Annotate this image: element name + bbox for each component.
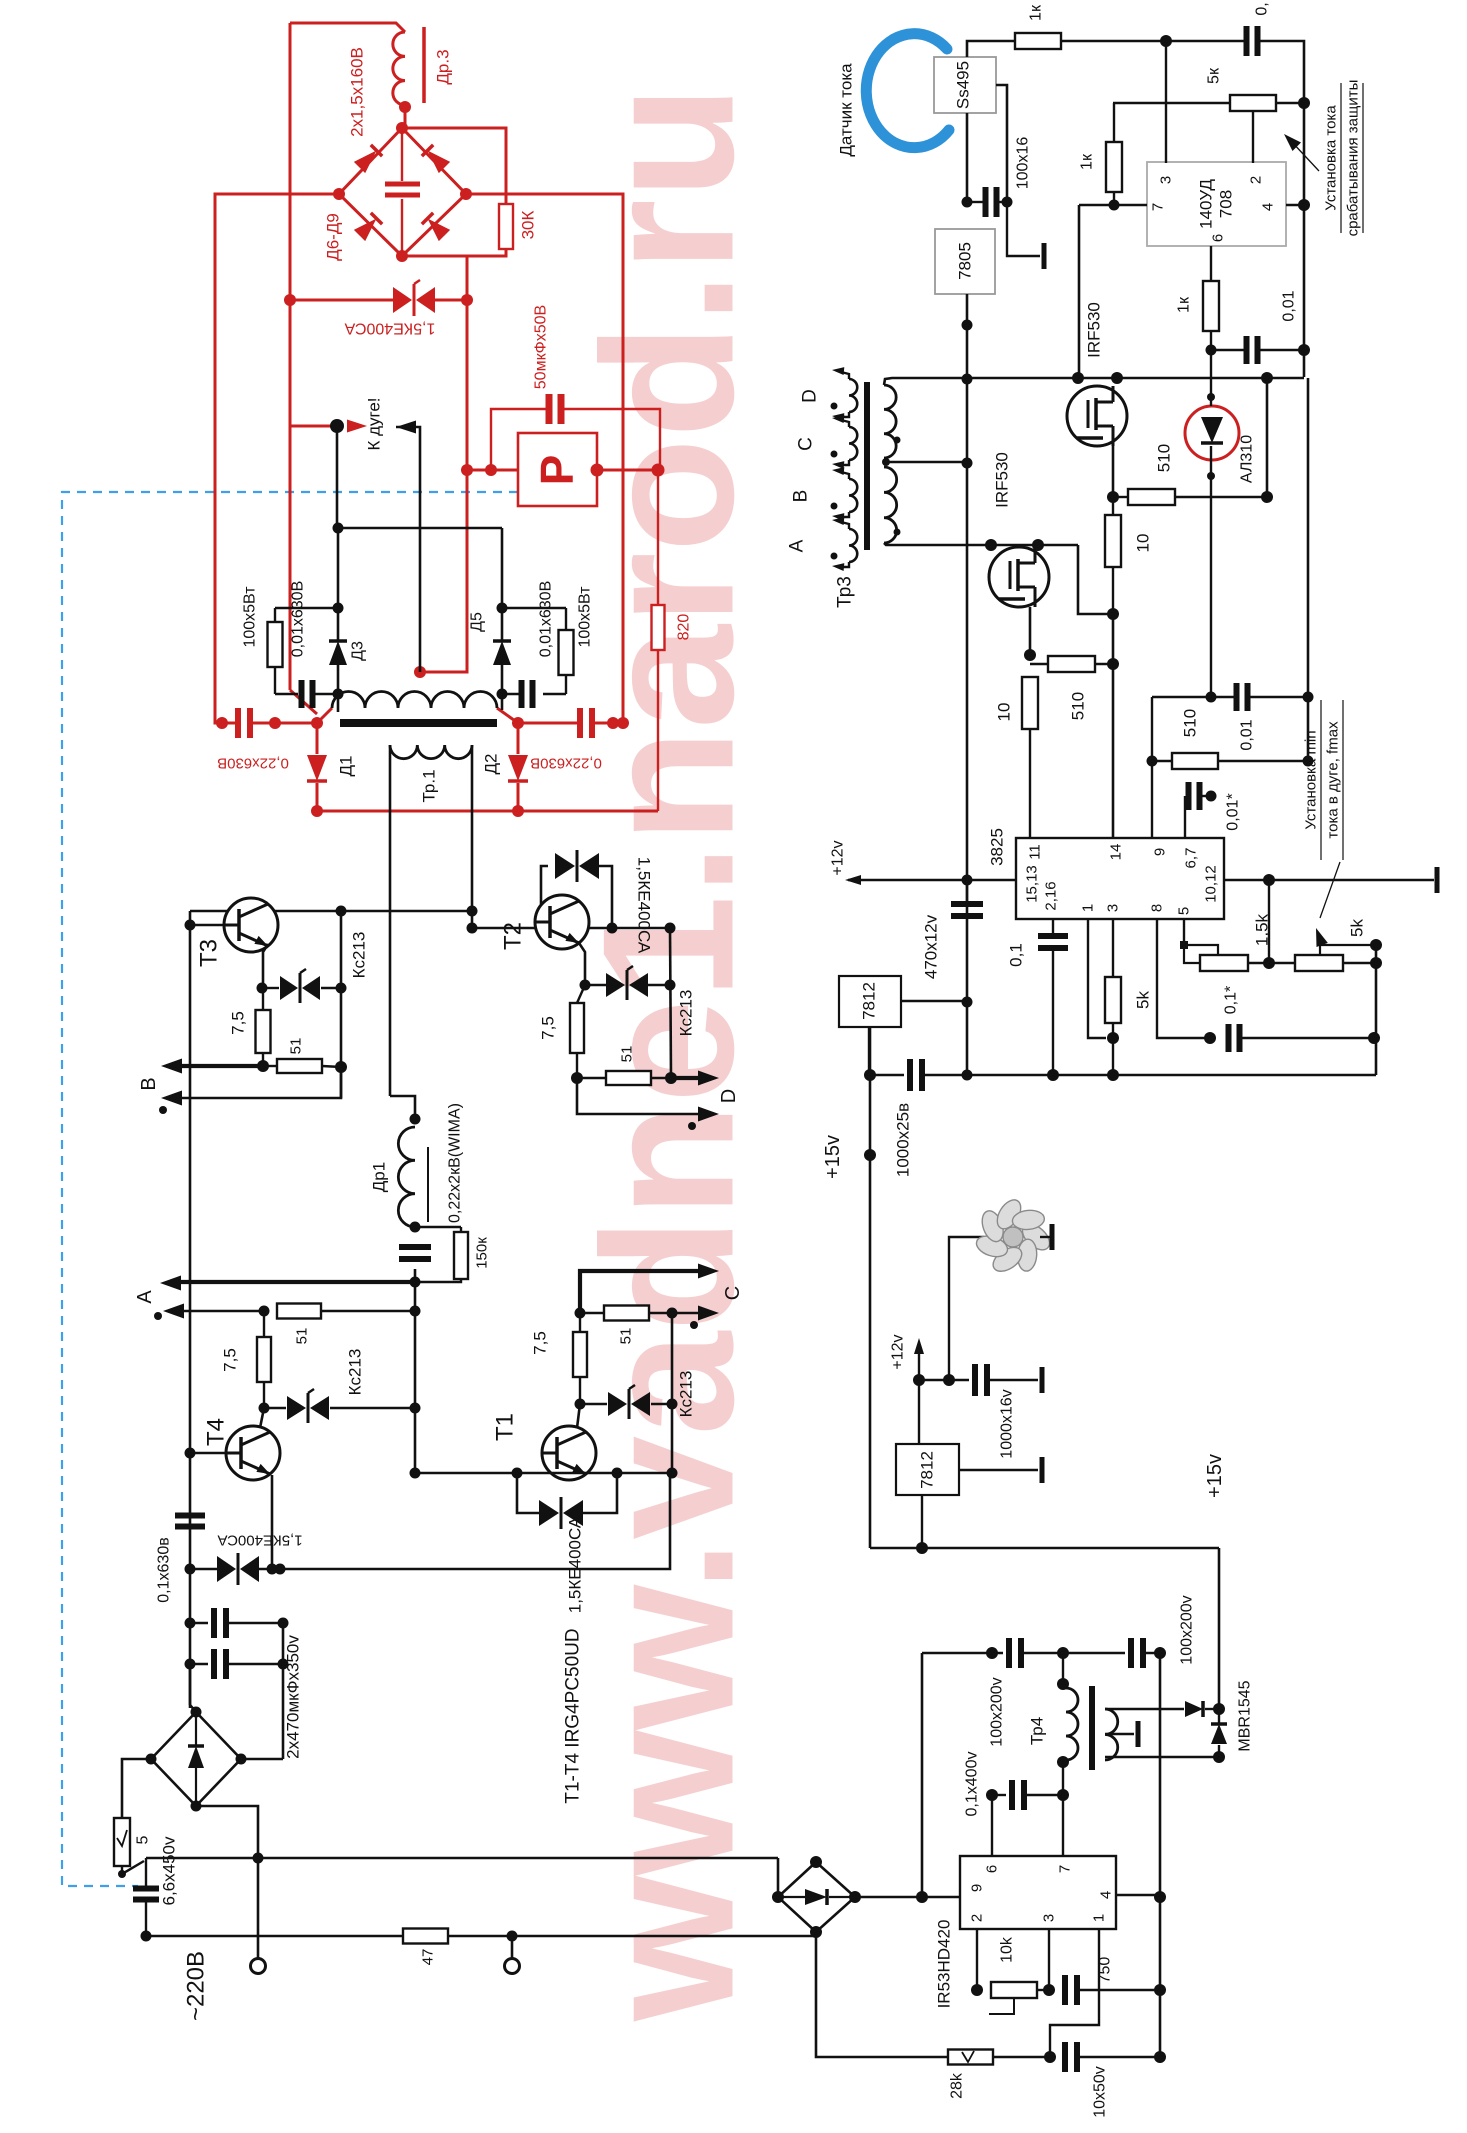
wire aux bridge top [815,1858,817,1862]
cap 10x50v [1062,2042,1068,2072]
svg-text:Т2: Т2 [500,922,527,950]
transformer Tr.1 primary [332,692,497,709]
svg-text:7,5: 7,5 [531,1331,550,1355]
rail x=658 with 820 [657,470,659,811]
svg-text:10: 10 [1134,534,1153,553]
wire IRF530 upper source [1112,446,1115,497]
svg-text:100х5Вт: 100х5Вт [242,586,259,648]
wire aux bottom down [816,1936,948,2057]
thick arrow D [671,1076,700,1080]
bridge diode top-left [354,145,382,173]
Tp3 winding B [849,479,857,512]
svg-text:510: 510 [1181,709,1200,737]
svg-text:15,13: 15,13 [1024,865,1041,903]
wire pin7 row [1079,204,1147,206]
svg-text:0,01х630В: 0,01х630В [538,581,555,658]
svg-text:0,01: 0,01 [1239,719,1256,750]
cap 0,1 pin216 [1052,919,1054,934]
svg-text:1к: 1к [1028,4,1045,21]
zener Kc213 T1 [580,1403,607,1405]
cap 1000x25v [870,1074,904,1076]
cap 0,1x630V [175,1513,205,1519]
rail x=190 [189,911,192,1708]
rail x=290 [289,23,292,690]
Tr.1 primary diag left [317,708,332,723]
transformer Tp4 secondary [1105,1709,1118,1760]
Tp3 winding C [849,427,857,460]
resistor 510 pin9 [1152,760,1172,762]
wire Ss495 right leg [996,85,1007,202]
svg-text:2: 2 [1248,176,1265,184]
svg-text:9: 9 [1152,848,1169,856]
svg-text:T1-T4 IRG4PC50UD: T1-T4 IRG4PC50UD [563,1628,584,1803]
svg-text:+12v: +12v [830,840,847,875]
current sensor blue arc [866,34,949,148]
svg-text:100х200v: 100х200v [1179,1595,1196,1664]
svg-text:IRF530: IRF530 [993,452,1012,508]
svg-text:100х200v: 100х200v [989,1677,1006,1746]
bus T3 y=911 [190,910,472,913]
wire x=415 down [414,1269,417,1473]
svg-text:IR53HD420: IR53HD420 [935,1920,954,2009]
wire x=1267 [1266,378,1269,497]
cap 6,6x450v [145,1858,147,1889]
snubber right cap 0,01x630V [519,680,525,708]
svg-text:7: 7 [1057,1865,1074,1873]
svg-text:6: 6 [984,1865,1001,1873]
svg-text:0,01*: 0,01* [1225,793,1242,830]
svg-text:51: 51 [294,1328,311,1345]
svg-text:510: 510 [1155,444,1174,472]
transformer Tp4 primary [1066,1688,1078,1760]
svg-text:Др1: Др1 [370,1162,389,1192]
svg-text:150к: 150к [474,1237,491,1269]
svg-text:4: 4 [1260,203,1277,211]
svg-text:14: 14 [1108,844,1125,861]
wire K duge return arrow [396,421,416,434]
svg-text:51: 51 [619,1046,636,1063]
svg-text:10,12: 10,12 [1203,865,1220,903]
Tp3 phase dots [894,437,901,444]
svg-text:Установка тока: Установка тока [1323,105,1340,211]
pot 1,5k [1184,945,1218,956]
wire pin3 ir [1048,1929,1050,1990]
bridge vertex dots [396,122,408,134]
bridge diode bottom-left [354,213,382,241]
switch [121,1866,123,1872]
svg-text:IRF530: IRF530 [1085,302,1104,358]
svg-text:10k: 10k [999,1936,1016,1963]
wire bridge bottom to mains [196,1806,258,1966]
svg-text:MBR1545: MBR1545 [1237,1680,1254,1751]
wire secondary left leg [389,745,392,1096]
svg-text:11: 11 [1027,844,1044,860]
svg-text:1000х25в: 1000х25в [894,1103,913,1177]
svg-text:+12v: +12v [890,1334,907,1369]
svg-text:Кс213: Кс213 [350,932,369,979]
box P [518,433,597,506]
rail y=377 [884,378,1304,385]
wire x=341 T3 [340,911,343,988]
wire secondary bottom [1105,1756,1219,1758]
pot 5k arc [1295,955,1343,971]
resistor 51 T1 [580,1312,604,1314]
svg-text:Д6-Д9: Д6-Д9 [324,213,343,261]
svg-text:B: B [138,1077,160,1090]
rail x=283 [282,1623,285,1759]
svg-text:1000х16v: 1000х16v [999,1389,1016,1458]
box Ss495 [934,57,996,113]
svg-text:7,5: 7,5 [229,1011,248,1035]
svg-text:5: 5 [1176,907,1193,915]
ground 1000x16v [1040,1367,1045,1393]
svg-text:Датчик тока: Датчик тока [837,63,856,157]
thin arrow A + 51 T4 [182,1310,264,1313]
cap 470uF A [190,1622,208,1624]
TVS under T1 [517,1473,539,1513]
svg-text:10: 10 [995,703,1014,722]
resistor 510 src upper [1113,496,1128,498]
resistor 51 T2 [577,1077,606,1079]
resistor 10k [991,1982,1037,1998]
box 7812 B [896,1444,959,1495]
gnd rail y=1075 [967,1074,1376,1077]
svg-text:7812: 7812 [918,1451,937,1489]
resistor 7,5 T2 [577,985,585,1003]
svg-text:140УД: 140УД [1197,179,1216,229]
resistor 820 [652,605,665,650]
svg-text:0,1х400v: 0,1х400v [964,1752,981,1817]
Tr.1 primary diag right [497,708,518,723]
rail x=967 [966,294,969,1075]
svg-text:C: C [796,437,817,451]
svg-text:www.vadne1.narod.ru: www.vadne1.narod.ru [564,85,773,2022]
svg-text:срабатывания защиты: срабатывания защиты [1345,80,1362,237]
wire T3 emitter [263,944,268,988]
svg-text:0,01: 0,01 [1281,290,1298,321]
snubber left cap 0,01x630V [299,680,305,708]
wire pin7 ir [1062,1762,1064,1856]
wire right-vertex rail x=623 [466,194,623,723]
svg-text:К дуге!: К дуге! [365,397,384,450]
wire x=1376 [1375,945,1378,1075]
svg-text:1,5КЕ400СА: 1,5КЕ400СА [217,1532,302,1549]
wire pin5 [1183,919,1185,945]
thick arrow A [179,1280,415,1284]
resistor 51 T3 [263,1065,277,1067]
svg-text:6,7: 6,7 [1183,848,1200,869]
node T1 gate + thick arrow C [580,1271,700,1313]
Tp3 primary lower [884,467,897,543]
mains lower wire [146,1935,403,1938]
svg-text:6: 6 [1210,234,1227,242]
svg-text:0,1: 0,1 [1007,943,1026,967]
resistor 7,5 T3 [262,988,264,1010]
svg-text:Ss495: Ss495 [954,61,973,109]
bridge D6-D9 diamond [339,128,466,256]
cap 750 [1062,1975,1068,2005]
wire bridge top to 30K [402,128,506,204]
adjust arrow min [1320,862,1340,918]
wire 7812B gnd [959,1469,1038,1471]
wire 7812A out [901,1000,967,1002]
wire 7812A gnd [868,1027,870,1075]
aux bridge diamond [778,1862,855,1932]
red candle cap right [512,717,524,729]
wire x=672 T1 [671,1313,674,1473]
wire T1 gate lead [577,1404,580,1428]
wire 30K bottom [402,249,506,256]
bridge input diode [195,1714,197,1745]
snubber right resistor 100x5W [502,607,566,609]
wire Tp3 to lower gate jog [1078,545,1113,614]
mains lower wire cont [448,1935,816,1938]
bridge input diamond [151,1712,241,1806]
mosfet IRF530 upper [1067,386,1127,446]
box IR53HD420 [960,1856,1116,1929]
wire P left [467,469,518,472]
svg-text:0,1*: 0,1* [1223,986,1240,1014]
svg-text:50мкФх50В: 50мкФх50В [533,305,550,389]
transistor T4 [226,1426,280,1480]
transformer Tr.1 secondary [390,745,472,759]
wire T4 emitter [271,1475,274,1569]
svg-text:Кс213: Кс213 [677,1371,696,1418]
Tp3 winding D [849,379,857,412]
svg-text:0,22х630В: 0,22х630В [530,755,602,772]
transformer Tp4 core [1089,1686,1095,1770]
transistor T2 [535,895,589,949]
svg-text:8: 8 [1149,904,1166,912]
cap 0,1* [1226,1024,1232,1052]
+15v feed row [870,1547,1219,1550]
svg-text:4: 4 [1098,1891,1115,1899]
svg-text:Д5: Д5 [469,612,486,632]
wire P right [597,469,658,472]
Tp3 bottom rail [884,543,1078,545]
node coil-bridge [399,101,411,113]
bus T1 y=1473 [415,1472,672,1475]
adjust arrow protection [1291,141,1319,171]
diode D5 [501,528,504,642]
wire bridge top [189,1664,192,1705]
wire to ground 100x16 [1007,202,1040,256]
svg-text:+15v: +15v [1204,1454,1226,1498]
cap 1000x16v [919,1379,949,1381]
svg-text:10x50v: 10x50v [1092,2066,1109,2118]
svg-text:1к: 1к [1079,153,1096,170]
cap 0,1x400v [992,1794,1006,1796]
resistor 1k top [1015,33,1061,49]
wire x=922 [921,1653,924,1897]
svg-text:3: 3 [1041,1914,1058,1922]
svg-text:7,5: 7,5 [539,1016,558,1040]
node T2 gate [571,1072,583,1084]
resistor 10 lower [1022,677,1038,729]
cap 100x200v A [1006,1638,1012,1668]
inductor Dr.3 coil [393,32,405,105]
bridge diode top-right [422,145,450,173]
TVS 1,5KE400CA red [290,299,394,302]
inductor Dr1 core [427,1147,429,1222]
terminal 1 [251,1959,266,1974]
wire pin4 ir [1116,1894,1160,1896]
svg-text:100х5Вт: 100х5Вт [577,586,594,648]
resistor 150k [415,1226,461,1228]
rail x=467 [420,256,467,672]
svg-text:51: 51 [618,1328,635,1345]
diode MBR1545 bottom [1218,1709,1220,1723]
transformer Tp3 core [864,382,870,550]
svg-text:9: 9 [969,1884,986,1892]
svg-text:1: 1 [1080,904,1097,912]
wire x=1160 [1159,1653,1162,2057]
svg-text:Тр4: Тр4 [1028,1717,1047,1745]
wire T4 base [190,1452,226,1455]
wire x=670 T2 [670,928,671,1078]
cap 100x16 [967,201,983,203]
svg-text:7,5: 7,5 [221,1348,240,1372]
svg-text:30К: 30К [519,210,538,239]
resistor 5k pin3 [1112,919,1114,977]
bus T2 y=928 [472,927,670,930]
cap 0,01 opamp [1211,349,1246,351]
wire x=1113 to pin14 [1112,614,1115,838]
LED AL310 [1185,406,1239,460]
zener Kc213 T2 [585,984,606,986]
wire 7812B bottom [921,1495,923,1548]
thin arrow D [577,1078,700,1114]
box 7805 [935,229,995,294]
svg-text:3: 3 [1158,176,1175,184]
svg-text:C: C [722,1286,744,1300]
svg-text:Тр3: Тр3 [835,576,856,608]
svg-text:2,16: 2,16 [1043,881,1060,910]
red bus y=811 [317,810,658,813]
snubber left resistor 100x5W [275,607,338,609]
svg-text:470х12v: 470х12v [922,914,941,979]
wire pin1 ir [1050,1929,1099,2057]
cap 0,01* pin67 [1184,796,1186,838]
transformer Tr.1 core [340,719,497,727]
svg-text:0,22х630В: 0,22х630В [217,755,289,772]
resistor 510 lower [1030,663,1048,665]
svg-text:D: D [800,389,821,403]
svg-text:1,5КЕ400СА: 1,5КЕ400СА [635,857,654,954]
svg-text:820: 820 [676,614,693,641]
resistor 7,5 T4 [263,1311,265,1337]
diode D1 [316,723,319,754]
cap 470x12v [951,901,983,907]
wire pin8 [1157,919,1210,1038]
node Dr1 bottom [410,1222,421,1233]
wire bridge right [241,1758,283,1761]
svg-text:7812: 7812 [860,982,879,1020]
svg-text:51: 51 [288,1038,305,1055]
TVS input [190,1568,217,1571]
wire pin2 ir [976,1929,978,1990]
svg-text:A: A [134,1290,156,1304]
rail x=870 [869,976,872,1548]
svg-text:0,22х2кВ(WIMA): 0,22х2кВ(WIMA) [447,1103,464,1223]
fan wire [949,1237,984,1380]
aux bridge diode [782,1896,806,1898]
Tp3 primary upper [884,385,896,458]
svg-text:0,1х630в: 0,1х630в [156,1537,173,1602]
svg-text:5: 5 [135,1835,152,1844]
svg-text:+15v: +15v [822,1135,844,1179]
cap 0,22x2kV [399,1244,431,1250]
svg-text:2х470мкФх350v: 2х470мкФх350v [284,1635,303,1759]
fan blades [1018,1219,1054,1255]
wire emitter bus to T1 rail [280,1473,670,1569]
cap 470uF B [190,1663,208,1665]
transistor T3 [224,898,278,952]
svg-text:47: 47 [420,1949,437,1966]
svg-text:5к: 5к [1206,67,1223,84]
wire pin1 [1088,919,1106,1038]
svg-text:3825: 3825 [988,828,1007,866]
inductor Dr.3 core [422,27,426,103]
svg-text:Др.3: Др.3 [434,49,453,84]
inductor Dr1 [398,1127,415,1227]
wire T4 gate lead [260,1408,264,1428]
red candle cap left [216,717,228,729]
resistor 7,5 T1 [579,1313,581,1332]
fan ground [1040,1236,1050,1238]
wire Ss495 bottom [966,113,969,202]
bridge D6-D9 center cap [401,130,403,181]
wire jog secondary to Dr1 [390,1096,415,1119]
wire top bus [1061,40,1246,43]
cap 50uFx50V [546,394,553,424]
node T3 gate + thick arrow B [180,1064,263,1068]
svg-text:D: D [718,1089,740,1103]
svg-text:7805: 7805 [956,242,975,280]
wire pin10,12 row [1224,879,1434,882]
svg-text:100х16: 100х16 [1015,137,1032,190]
svg-text:0,01х630В: 0,01х630В [290,581,307,658]
TVS over T2 [541,866,548,928]
ground 100x16 [1042,243,1047,269]
svg-text:A: A [787,539,808,552]
resistor 30K [499,204,513,249]
wire pin9 net [1151,697,1153,838]
transistor T1 [542,1426,596,1480]
op-amp 140UD708 box [1147,162,1286,246]
resistor 1k mid [1113,103,1115,142]
svg-text:28k: 28k [949,2072,966,2099]
dashed control link (P to switch) [62,492,518,1886]
pot 10k tap [989,1999,1014,2014]
rail x=215 from left vertex [215,194,339,723]
svg-text:Д3: Д3 [350,641,367,661]
wire top red rail [290,23,405,32]
svg-text:Д2: Д2 [482,754,501,775]
Tp3 center tap [884,461,967,464]
svg-text:510: 510 [1069,692,1088,720]
wire mains to aux bridge [777,1858,780,1897]
wire pin6 ir [991,1795,993,1856]
svg-text:5k: 5k [1348,919,1367,937]
svg-text:B: B [791,490,812,503]
thin arrow B [180,1067,341,1098]
svg-text:Кс213: Кс213 [346,1349,365,1396]
zener Kc213 T4 [264,1407,286,1409]
resistor 10 upper [1112,497,1114,515]
svg-text:Д1: Д1 [337,756,356,777]
IC 3825 box [1016,838,1224,919]
